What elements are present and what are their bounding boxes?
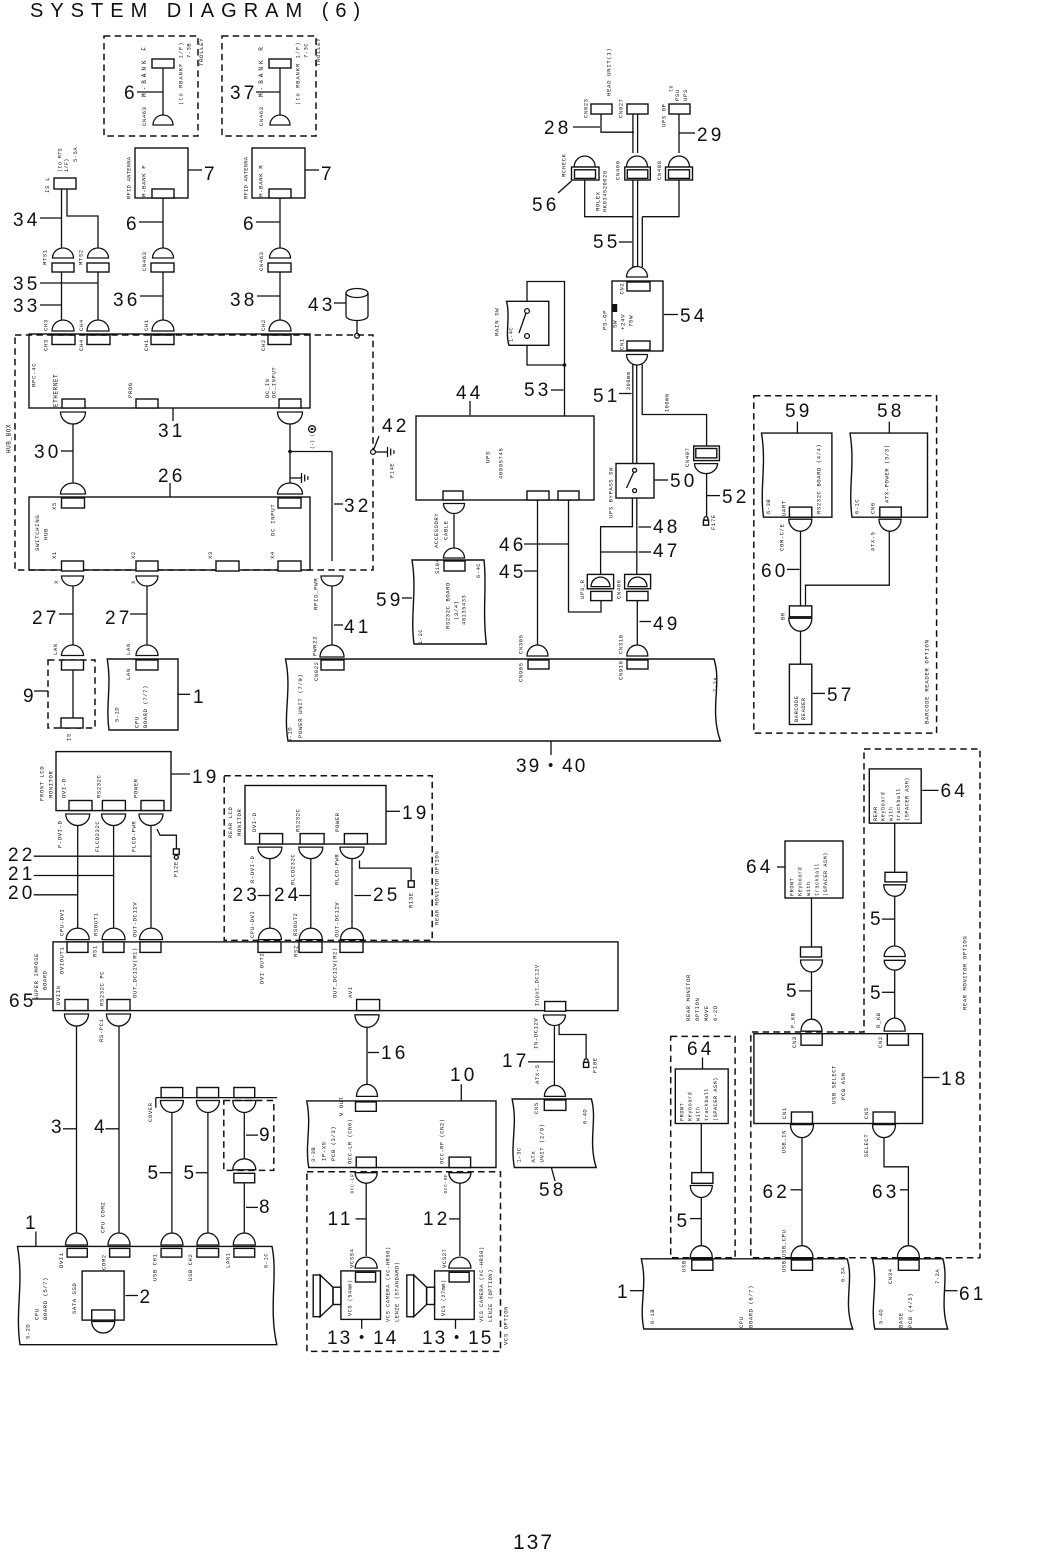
svg-text:MTS2: MTS2 [78,249,85,265]
svg-text:(to MBANKF 1/F): (to MBANKF 1/F) [179,41,185,105]
box REAR Keyboard [869,769,921,823]
dashed box 9 lower [224,1101,274,1171]
svg-text:41: 41 [344,617,372,638]
svg-text:48: 48 [653,517,681,538]
connector USB_IN socket [791,1125,814,1138]
svg-text:5: 5 [148,1163,162,1184]
svg-text:F12E: F12E [173,861,180,877]
connector rear inline pair upper [884,946,905,957]
pad antenna R [269,189,291,198]
svg-text:ATX-5: ATX-5 [534,1064,541,1084]
svg-text:F14E: F14E [390,463,396,478]
box SATA SSD [82,1271,124,1320]
svg-text:OPTION: OPTION [694,998,701,1021]
svg-text:DVI1: DVI1 [58,1252,65,1268]
svg-text:CPU-DVI: CPU-DVI [59,909,66,936]
svg-text:35: 35 [13,274,41,295]
svg-text:7: 7 [204,164,218,185]
connector CPU-DVI2 plug [258,928,281,940]
connector CN407 [694,446,720,461]
wire COM to BR [800,531,802,606]
svg-text:ACCESSORY: ACCESSORY [433,513,440,548]
svg-text:6: 6 [243,214,257,235]
svg-text:34: 34 [13,210,41,231]
pad OCC-LR [356,1157,376,1167]
connector CN463 trolley F [153,115,173,125]
camera VCS (27mm) body [435,1271,475,1320]
wire [894,970,896,1018]
svg-text:59: 59 [785,401,813,422]
wire [162,272,164,320]
pad DVI-D rear [260,834,283,844]
svg-text:54: 54 [680,306,708,327]
wire [72,670,74,718]
svg-text:SELECT: SELECT [863,1134,870,1158]
pad X1 [62,561,84,571]
svg-text:R13E: R13E [408,892,415,908]
svg-text:CN407: CN407 [684,447,691,467]
switch contact bottom [633,489,637,493]
wire to F12E [157,829,176,849]
callout 13-14 [361,1319,363,1328]
svg-text:TROLLEY: TROLLEY [315,38,322,66]
svg-text:55: 55 [593,232,621,253]
connector FLCD232C [102,814,126,826]
wire 16 AVI [366,1027,368,1084]
camera VCS (54mm) body [341,1271,381,1320]
svg-text:REAR MONITOR OPTION: REAR MONITOR OPTION [434,851,441,925]
wire 200mm double [632,365,634,464]
paper IP-X5 PCB (3/3) [307,1101,496,1168]
svg-text:with: with [806,881,812,896]
svg-text:HUB_BOX: HUB_BOX [6,424,13,453]
svg-text:(SPACER ASM): (SPACER ASM) [823,852,829,896]
pad cover 2 [197,1088,219,1098]
svg-text:LAN1: LAN1 [225,1252,232,1268]
svg-text:DC_INPUT: DC_INPUT [271,367,278,398]
wire [162,198,164,248]
connector CPU-DVI plug [66,928,89,940]
svg-text:1-3C: 1-3C [517,1147,523,1162]
svg-text:DVIIN: DVIIN [55,985,62,1005]
wire CN027 double [632,114,634,153]
node on dashed edge [371,450,376,455]
svg-text:UPS OP: UPS OP [661,103,668,127]
box MAIN SW [507,301,549,345]
capacitor 43 cylinder [346,289,368,298]
svg-text:REAR LCD: REAR LCD [227,807,234,838]
svg-text:S104: S104 [435,559,441,574]
svg-text:LAN: LAN [125,643,132,655]
svg-text:46: 46 [499,535,527,556]
connector MTS2 [88,248,109,258]
pad M-BANK R [269,59,291,68]
svg-text:M-BANK R: M-BANK R [258,44,265,97]
connector CH1 plug [152,320,174,331]
svg-text:16: 16 [381,1043,409,1064]
svg-text:59: 59 [376,590,404,611]
svg-text:FRONT LCD: FRONT LCD [39,766,46,801]
svg-text:BOARD (5/7): BOARD (5/7) [42,1277,49,1320]
pad M-BANK F [152,59,174,68]
wire [279,198,281,248]
svg-text:45: 45 [499,562,527,583]
connector LAN plug left [62,645,84,656]
connector CN408 [669,156,690,167]
svg-text:RFID_PWR: RFID_PWR [313,578,320,610]
pad CN023 [591,104,612,114]
callout 39-40 [550,741,552,755]
svg-text:200mm: 200mm [626,372,632,390]
svg-text:FLCD232C: FLCD232C [94,821,101,852]
wire [146,586,148,645]
svg-text:M-BANK R: M-BANK R [258,165,265,197]
wire UPS OP [678,114,680,153]
svg-text:AVI: AVI [347,986,354,998]
svg-text:VCS CAMERA (XC-HR50): VCS CAMERA (XC-HR50) [386,1246,392,1322]
svg-text:52: 52 [722,487,750,508]
svg-text:CN027: CN027 [618,98,625,118]
svg-text:22: 22 [8,845,36,866]
connector RSOUT2 plug [299,928,322,940]
pad ups out2 [558,491,579,500]
connector DC INPUT plug [278,483,303,494]
svg-text:63: 63 [872,1182,900,1203]
svg-text:USB: USB [681,1260,688,1272]
svg-text:R_KB: R_KB [875,1012,882,1028]
svg-text:LENZE (STANDARD): LENZE (STANDARD) [395,1261,401,1322]
pad OCC-RF [449,1157,471,1167]
svg-text:LENZE (OPTION): LENZE (OPTION) [488,1269,494,1322]
wire USB_IN [801,1138,803,1246]
wire down to RFID_PWR pad [331,452,333,562]
pad OUT_DC12V(M1) [140,942,161,953]
svg-text:RS2: RS2 [293,945,300,957]
pad cover 3 [234,1088,255,1098]
svg-text:5-1D: 5-1D [115,707,121,722]
svg-text:CH1: CH1 [143,339,150,351]
svg-text:PCB ASM: PCB ASM [840,1073,847,1100]
svg-text:44: 44 [456,383,484,404]
connector CN305 [527,645,548,656]
svg-text:37: 37 [230,83,258,104]
svg-text:PSU: PSU [674,89,681,101]
svg-text:51: 51 [593,386,621,407]
connector SELECT socket [873,1125,896,1138]
svg-text:20: 20 [8,883,36,904]
svg-text:CH3: CH3 [43,339,50,351]
wire F-DVI-D [77,826,79,929]
svg-text:VCS CAMERA (XC-HR50): VCS CAMERA (XC-HR50) [479,1246,485,1322]
svg-text:RSOUT2: RSOUT2 [292,913,299,936]
pad X5 [62,498,85,508]
svg-text:BOARD (6/7): BOARD (6/7) [748,1285,755,1328]
svg-text:CH4: CH4 [78,339,85,351]
wire cross connect [601,551,637,553]
connector F_KB plug [801,1019,822,1031]
pad PROG [136,399,158,408]
svg-text:6-3B: 6-3B [766,499,772,514]
svg-text:SW: SW [612,320,619,328]
svg-text:ATX-5: ATX-5 [870,531,877,551]
switch lever [519,313,526,333]
wire ethernet to hub [72,424,74,483]
svg-text:POWER: POWER [334,812,341,832]
connector plug below PS-OP [627,355,648,366]
svg-text:DVIOUT1: DVIOUT1 [59,947,66,974]
svg-text:X3: X3 [207,551,214,559]
svg-text:RS232C BOARD: RS232C BOARD [445,582,452,629]
pad LAN1 [234,1248,255,1257]
pad IS L [54,178,76,189]
connector USBCH2 plug [197,1233,219,1245]
pad LAN left [62,660,84,670]
svg-text:RS232C: RS232C [295,808,302,832]
svg-text:OUT-DC12V: OUT-DC12V [132,902,139,937]
pad USB CH1 [161,1248,182,1257]
camera VCS (27mm) lens [427,1287,435,1304]
connector F-DVI-D [66,814,90,826]
box RFID ANTENNA F (M-BANK F) [135,148,188,198]
svg-text:F18E: F18E [592,1057,599,1073]
wire to R13E [360,861,412,881]
wire [706,474,708,517]
wire [356,321,358,334]
pad CN910 [627,660,648,669]
svg-text:VCS27: VCS27 [441,1248,448,1268]
svg-text:CH2: CH2 [260,339,267,351]
connector MTS1 [53,248,74,258]
svg-text:25: 25 [373,885,401,906]
svg-text:CH4: CH4 [78,319,85,331]
svg-text:1: 1 [193,687,207,708]
svg-text:RLCD-PWR: RLCD-PWR [334,854,341,885]
connector CN409 [627,156,648,167]
connector AVI socket [355,1015,379,1027]
svg-text:7-2A: 7-2A [713,677,719,692]
wire UPS out1 to CN305 [537,500,539,645]
svg-text:RS232C: RS232C [96,774,103,798]
svg-text:HUB: HUB [43,528,50,540]
svg-text:+24V: +24V [620,314,627,330]
wire cover1 [171,1113,173,1233]
svg-text:MCHECK: MCHECK [561,153,568,177]
pad DVI-D front [69,801,92,811]
svg-text:BARCODE READER OPTION: BARCODE READER OPTION [924,639,931,724]
svg-text:58: 58 [539,1180,567,1201]
wire junction to right [290,451,332,453]
connector accessory cable top [444,504,465,514]
svg-text:with: with [696,1106,702,1121]
pad DVI OUT2 [258,942,281,953]
svg-text:Keyboard: Keyboard [687,1092,693,1121]
paper RS232C BOARD (4/4) [762,433,832,517]
svg-text:57: 57 [827,685,855,706]
svg-text:28: 28 [544,118,572,139]
svg-text:RS-PC1: RS-PC1 [98,1018,105,1042]
wire 3 DVI [76,1026,78,1233]
fuse F12E [173,849,179,855]
svg-text:100mm: 100mm [665,394,671,412]
svg-text:42: 42 [382,416,410,437]
pad cover 1 [161,1088,183,1098]
svg-text:HEAD UNIT(1): HEAD UNIT(1) [606,48,613,96]
connector MCHECK [574,156,595,167]
dashed box front keyboard option [671,1036,735,1257]
svg-text:CN305: CN305 [518,634,525,654]
pad RS2 [299,942,322,953]
connector ATX socket [879,519,901,531]
wire lan1 drop [243,1183,245,1233]
pad X2 [136,561,158,571]
svg-text:33: 33 [13,296,41,317]
connector IN-DC12V socket [543,1015,565,1026]
svg-text:PCB (4/5): PCB (4/5) [907,1293,914,1328]
svg-text:LAN: LAN [52,643,59,655]
svg-text:REAR MONITOR: REAR MONITOR [685,974,692,1021]
svg-text:F-DVI-D: F-DVI-D [57,821,64,848]
svg-text:ETHERNET: ETHERNET [53,374,60,407]
svg-text:CN2: CN2 [877,1036,884,1048]
svg-text:6-2D: 6-2D [712,1005,719,1021]
wire R-DVI-D [269,859,271,928]
svg-text:VCS (54mm): VCS (54mm) [348,1279,354,1316]
wire RLCD-PWR [351,859,353,928]
svg-text:23: 23 [233,885,261,906]
wire double down to PS-OP [632,180,634,267]
svg-text:61: 61 [959,1284,987,1305]
connector USB front plug [690,1246,712,1258]
pad CN1 [627,341,650,350]
connector X socket (X2) [136,576,158,586]
connector rear inline pair lower [884,960,905,970]
wire MTS2 to CH4 [97,272,99,320]
svg-text:6-1C: 6-1C [264,1253,270,1268]
paper BASE PCB (4/5) [873,1259,948,1329]
svg-text:Input_DC12V: Input_DC12V [535,964,541,1006]
svg-text:2: 2 [140,1287,154,1308]
connector R_KB plug [884,1018,905,1031]
svg-text:BOARD (7/7): BOARD (7/7) [142,685,149,728]
pad CH2 [268,335,291,345]
svg-text:DVI OUT2: DVI OUT2 [259,953,266,984]
svg-text:49: 49 [653,614,681,635]
wire IN-DC12V [553,1026,555,1086]
pad DVIIN [65,1000,88,1011]
connector FLCD-PWR [139,814,163,826]
dashed box VCS OPTION [307,1172,501,1352]
wire VCS27 [459,1183,461,1256]
pad X3 [216,561,239,571]
svg-text:F17E: F17E [710,514,717,530]
pad COM-C/E [789,507,811,517]
dashed region REAR MONITOR OPTION right (L-shape) [751,749,980,1258]
wire [700,1124,702,1173]
svg-text:RS1: RS1 [92,945,99,957]
svg-text:CN463: CN463 [258,106,265,126]
svg-text:with: with [888,806,894,821]
connector RLCD232C [299,847,323,859]
switch contact top [633,468,637,472]
connector COM-C/E socket [789,519,812,531]
svg-text:27: 27 [105,608,133,629]
svg-text:MOLEX: MOLEX [595,191,602,211]
svg-text:IN-DC12V: IN-DC12V [533,1018,540,1049]
connector X socket (X1) [62,576,84,586]
svg-text:7: 7 [321,164,335,185]
pad CN1 usb [791,1112,812,1124]
connector accessory cable bottom [444,548,465,558]
box FRONT LCD MONITOR [56,752,171,811]
svg-text:64: 64 [687,1039,715,1060]
svg-text:CPU: CPU [34,1308,41,1320]
pad accessory [443,491,463,500]
box FRONT Keyboard lower [675,1069,728,1124]
connector front kb inline [692,1173,713,1184]
svg-text:RS232C PC: RS232C PC [99,971,106,1006]
svg-text:RFID ANTENNA: RFID ANTENNA [244,156,250,199]
dashed box REAR MONITOR OPTION mid [224,776,432,941]
svg-text:OCC-LR: OCC-LR [350,1174,356,1194]
svg-text:137: 137 [513,1531,554,1554]
svg-text:F_KB: F_KB [790,1012,797,1028]
box PS-OP power supply [612,281,663,351]
svg-text:CN463: CN463 [141,106,148,126]
svg-text:13・14: 13・14 [327,1328,398,1349]
svg-text:ATX: ATX [530,1151,537,1163]
svg-text:65: 65 [9,991,37,1012]
pad POWER front [141,801,164,811]
svg-text:V OUT: V OUT [338,1096,345,1116]
svg-text:64: 64 [941,781,969,802]
pad ATX-5 pad [880,507,902,517]
svg-text:1/F): 1/F) [64,158,70,172]
svg-text:OCC-RF: OCC-RF [443,1174,449,1194]
fuse F18E [584,1059,588,1063]
svg-text:6-4D: 6-4D [583,1109,589,1124]
connector CN310 [627,645,648,656]
svg-text:OUT_DC12V(M1): OUT_DC12V(M1) [132,947,139,998]
svg-text:X: X [53,580,60,584]
connector in box9 plug [233,1159,256,1170]
wire VCS54 [365,1183,367,1256]
pad CH4 [87,335,110,345]
connector R-DVI-D [258,847,282,859]
svg-text:CN6: CN6 [870,502,877,514]
connector select plug [897,1246,919,1258]
svg-text:7-3B: 7-3B [187,43,193,58]
svg-text:43: 43 [308,295,336,316]
svg-text:CN1: CN1 [619,338,626,350]
svg-text:MONITOR: MONITOR [48,771,55,798]
box RFID ANTENNA R (M-BANK R) [252,148,305,198]
svg-text:LAN: LAN [125,668,132,680]
pad RS232C rear [300,834,324,844]
wire RLCD232C [310,859,312,928]
paper RS232C BOARD (3/4) [412,560,486,644]
svg-text:38: 38 [230,290,258,311]
svg-text:40095745: 40095745 [498,448,505,479]
svg-text:X1: X1 [51,551,58,559]
wire main sw top [527,282,565,417]
svg-text:60: 60 [761,561,789,582]
svg-text:DVI-D: DVI-D [61,778,68,798]
svg-text:CN3: CN3 [791,1036,798,1048]
wire FLCD232C [113,826,115,929]
svg-text:VCS (27mm): VCS (27mm) [441,1279,447,1316]
connector DVI1 plug [66,1233,88,1245]
svg-text:(to MTS: (to MTS [58,148,64,172]
